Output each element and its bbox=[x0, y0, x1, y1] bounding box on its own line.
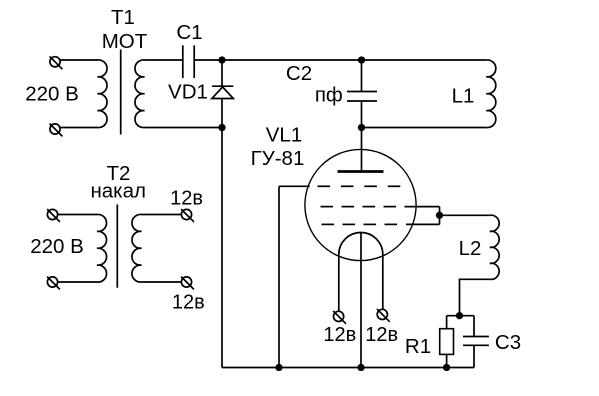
tube grid 1 (dashed) bbox=[318, 185, 401, 187]
wire node C to C2 top plate bbox=[361, 60, 363, 92]
svg-text:Т1: Т1 bbox=[111, 6, 135, 29]
svg-text:VD1: VD1 bbox=[168, 80, 208, 103]
svg-text:С1: С1 bbox=[176, 21, 202, 44]
wire C2 bottom plate to node D bbox=[361, 101, 363, 128]
node C (top of C2) bbox=[359, 57, 365, 63]
T2 secondary winding bbox=[132, 214, 142, 282]
terminal X2 (T1 primary bottom) bbox=[50, 124, 63, 137]
T1 primary winding bbox=[98, 60, 108, 128]
svg-text:12в: 12в bbox=[170, 188, 203, 210]
svg-text:L2: L2 bbox=[459, 237, 482, 260]
wire T2 secondary bottom lead bbox=[142, 281, 182, 283]
tube VL1 anode plate bbox=[338, 170, 384, 173]
terminal X7 (T2 secondary top) bbox=[181, 209, 194, 222]
svg-text:пф: пф bbox=[315, 83, 343, 106]
T1 secondary winding bbox=[135, 60, 145, 128]
wire bottom rail bbox=[222, 367, 474, 369]
capacitor C2 bbox=[347, 92, 377, 102]
wire T1 secondary bottom lead to node B bbox=[145, 127, 223, 129]
svg-text:накал: накал bbox=[90, 180, 146, 203]
wire T1 primary top lead bbox=[60, 59, 97, 61]
node D (anode junction) bbox=[359, 125, 365, 131]
capacitor C1 bbox=[183, 45, 194, 78]
diode VD1 bbox=[212, 86, 233, 98]
node H (grid1 wire to bottom rail) bbox=[276, 365, 282, 371]
svg-text:МОТ: МОТ bbox=[102, 30, 148, 53]
terminal X8 (T2 secondary bottom) bbox=[181, 277, 194, 290]
terminal X1 (T1 primary top) bbox=[50, 56, 63, 69]
node A (top of VD1) bbox=[219, 57, 225, 63]
wire node D to tube anode bbox=[361, 128, 363, 172]
node B (VD1 anode junction) bbox=[219, 125, 225, 131]
wire filament left leg bbox=[338, 255, 340, 312]
svg-text:220 В: 220 В bbox=[25, 82, 79, 105]
wire T2 primary top lead bbox=[58, 214, 97, 216]
wire T1 primary bottom lead bbox=[60, 127, 97, 129]
wire R1 top lead bbox=[446, 316, 448, 329]
wire T1 secondary top lead to C1 bbox=[145, 59, 183, 61]
wire grid2-grid3 connector bbox=[439, 207, 441, 225]
T1 core bbox=[120, 50, 122, 135]
wire node A to VD1 cathode bbox=[221, 60, 223, 86]
wire L2 bottom lead bbox=[460, 279, 490, 315]
node F (top of R1/C3) bbox=[457, 313, 463, 319]
svg-text:ГУ-81: ГУ-81 bbox=[251, 147, 305, 170]
wire top rail C1 to L1 bbox=[194, 59, 486, 61]
inductor L2 bbox=[490, 215, 499, 279]
wire grid3 right exit bbox=[406, 223, 440, 225]
svg-text:R1: R1 bbox=[405, 335, 431, 358]
T2 core bbox=[116, 205, 118, 288]
wire L1 bottom to node D bbox=[362, 127, 487, 129]
terminal X6 (filament right) bbox=[377, 309, 390, 322]
tube filament heater bbox=[339, 233, 383, 255]
terminal X5 (filament left) bbox=[333, 311, 346, 324]
resistor R1 bbox=[440, 329, 454, 355]
wire node F horizontal bbox=[447, 315, 474, 317]
wire grid1 down to bottom rail bbox=[278, 186, 280, 367]
wire node E to L2 bbox=[440, 214, 490, 216]
wire grid2 right exit bbox=[405, 206, 440, 208]
node E (grid junction to L2) bbox=[437, 213, 443, 219]
wire C3 bottom lead bbox=[473, 345, 475, 367]
inductor L1 bbox=[486, 60, 496, 128]
wire C3 top lead bbox=[473, 316, 475, 337]
wire filament center tap bbox=[360, 233, 362, 368]
node G (R1 bottom junction) bbox=[444, 365, 450, 371]
wire filament right leg bbox=[382, 255, 384, 310]
wire T2 primary bottom lead bbox=[58, 281, 97, 283]
tube grid 3 (dashed) bbox=[322, 223, 398, 225]
capacitor C3 bbox=[463, 337, 489, 346]
svg-text:12в: 12в bbox=[172, 291, 205, 313]
svg-text:12в: 12в bbox=[323, 324, 356, 346]
T2 primary winding bbox=[97, 214, 107, 282]
node I (filament center tap to bottom rail) bbox=[358, 365, 364, 371]
svg-text:12в: 12в bbox=[365, 324, 398, 346]
svg-text:L1: L1 bbox=[452, 85, 475, 108]
tube VL1 envelope bbox=[305, 149, 416, 260]
wire T2 secondary top lead bbox=[142, 214, 182, 216]
svg-text:VL1: VL1 bbox=[266, 124, 302, 147]
tube grid 2 (dashed) bbox=[321, 206, 397, 208]
wire VD1 anode to node B bbox=[221, 99, 223, 128]
wire left vertical node B down bbox=[221, 128, 223, 368]
wire R1 bottom lead bbox=[446, 354, 448, 367]
terminal X3 (T2 primary top) bbox=[47, 209, 60, 222]
svg-text:С3: С3 bbox=[495, 331, 521, 354]
svg-text:220 В: 220 В bbox=[30, 235, 84, 258]
svg-text:С2: С2 bbox=[286, 62, 312, 85]
terminal X4 (T2 primary bottom) bbox=[47, 277, 60, 290]
wire grid1 left exit bbox=[279, 185, 310, 187]
